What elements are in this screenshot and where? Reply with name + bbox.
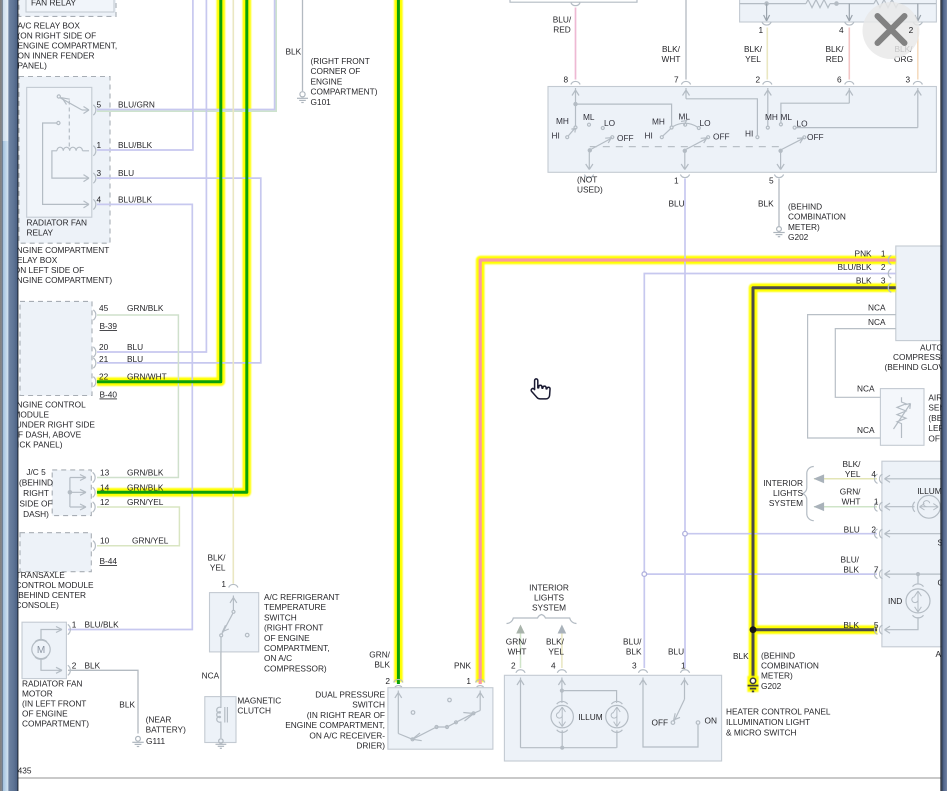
label dual pressure switch location xyxy=(285,690,385,751)
auto compressor pin arcs xyxy=(888,255,891,292)
relay internal contact and coil xyxy=(43,95,89,204)
svg-text:COMPRESSO: COMPRESSO xyxy=(893,352,947,362)
label BLU/RED xyxy=(553,15,572,35)
core BLK highlighted xyxy=(753,288,896,677)
svg-text:(BEHIND: (BEHIND xyxy=(788,202,822,212)
svg-text:& MICRO SWITCH: & MICRO SWITCH xyxy=(726,727,797,737)
svg-text:IND: IND xyxy=(888,596,902,606)
svg-text:20: 20 xyxy=(99,342,109,352)
svg-text:LIGHTS: LIGHTS xyxy=(773,488,803,498)
illumination box pin arcs xyxy=(874,474,882,634)
svg-text:4: 4 xyxy=(871,469,876,479)
fan relay dashed box (top, cut off) xyxy=(19,0,116,16)
svg-text:ILLUM: ILLUM xyxy=(917,486,942,496)
svg-text:GRN/WHT: GRN/WHT xyxy=(127,372,167,382)
svg-text:BLU/BLK: BLU/BLK xyxy=(837,262,872,272)
svg-text:22: 22 xyxy=(99,372,109,382)
svg-text:COMPARTMENT): COMPARTMENT) xyxy=(22,719,89,729)
svg-text:BLU: BLU xyxy=(668,647,684,657)
svg-text:G202: G202 xyxy=(788,232,809,242)
svg-text:RED: RED xyxy=(826,54,844,64)
svg-text:1: 1 xyxy=(681,661,686,671)
svg-text:45: 45 xyxy=(99,303,109,313)
close button X xyxy=(863,2,920,59)
svg-text:DUAL PRESSURE: DUAL PRESSURE xyxy=(315,690,385,700)
svg-text:3: 3 xyxy=(881,276,886,286)
svg-text:1: 1 xyxy=(72,620,77,630)
wire BLK radiator fan motor pin 2 to G111 xyxy=(68,670,138,733)
label BLK/YEL heater pin 4 xyxy=(546,637,565,657)
svg-text:4: 4 xyxy=(551,661,556,671)
svg-text:COMPARTMENT): COMPARTMENT) xyxy=(311,87,378,97)
svg-text:METER): METER) xyxy=(788,222,820,232)
dual pressure switch internals xyxy=(395,686,484,741)
svg-text:CORNER OF: CORNER OF xyxy=(311,66,361,76)
wire BLK/RED resistor pin 4 to blower pin 6 xyxy=(848,28,850,80)
svg-text:ON: ON xyxy=(705,716,717,726)
svg-text:J/C 5: J/C 5 xyxy=(26,467,46,477)
svg-text:BLU/: BLU/ xyxy=(841,555,860,565)
svg-text:HI: HI xyxy=(645,131,653,141)
a/c refrigerant temperature switch box xyxy=(210,593,259,652)
svg-text:(BEHIND: (BEHIND xyxy=(761,651,795,661)
svg-text:NCA: NCA xyxy=(202,671,220,681)
junction dot BLU wire xyxy=(683,531,688,536)
svg-text:1: 1 xyxy=(466,676,471,686)
svg-text:M: M xyxy=(37,645,45,656)
svg-text:OF DASH, ABOVE: OF DASH, ABOVE xyxy=(12,430,82,440)
svg-text:1: 1 xyxy=(874,497,879,507)
wire GRN/WHT heater pin 2 stub xyxy=(520,632,522,668)
svg-text:LO: LO xyxy=(700,118,712,128)
hand cursor xyxy=(531,379,550,399)
svg-text:OFF: OFF xyxy=(617,133,634,143)
svg-text:GRN/BLK: GRN/BLK xyxy=(127,482,164,492)
heater control panel box xyxy=(504,675,721,761)
core GRN/WHT wire 22 xyxy=(97,0,221,382)
wire BLU/BLK 7 to illumination box xyxy=(646,573,877,575)
svg-text:GRN/BLK: GRN/BLK xyxy=(127,468,164,478)
wire BLK to ground G101 xyxy=(302,0,304,91)
svg-text:PNK: PNK xyxy=(454,661,472,671)
label BLK 5 illumination xyxy=(843,620,879,630)
svg-text:3: 3 xyxy=(906,75,911,85)
svg-text:2: 2 xyxy=(511,661,516,671)
illumination box internals xyxy=(885,475,942,633)
svg-text:OFF: OFF xyxy=(713,132,730,142)
svg-text:BLK/: BLK/ xyxy=(744,44,763,54)
svg-text:RADIATOR FAN: RADIATOR FAN xyxy=(27,218,88,228)
label BLK/ORG xyxy=(894,44,913,64)
svg-text:LO: LO xyxy=(604,118,616,128)
svg-text:GRN/YEL: GRN/YEL xyxy=(132,536,169,546)
svg-text:A/C RELAY BOX: A/C RELAY BOX xyxy=(18,21,81,31)
svg-text:4: 4 xyxy=(839,25,844,35)
svg-text:OF: OF xyxy=(928,433,940,443)
svg-text:2: 2 xyxy=(871,525,876,535)
svg-text:COMBINATION: COMBINATION xyxy=(788,212,846,222)
svg-text:NCA: NCA xyxy=(868,303,886,313)
svg-text:12: 12 xyxy=(100,497,110,507)
radiator fan motor symbol xyxy=(32,624,71,675)
svg-text:BLU/BLK: BLU/BLK xyxy=(118,140,153,150)
label BLK/RED xyxy=(826,44,845,64)
magnetic clutch box xyxy=(205,697,236,743)
highlight trace GRN/WHT wire 22 xyxy=(97,0,221,382)
svg-text:LO: LO xyxy=(797,119,809,129)
label GRN/WHT heater pin 2 xyxy=(506,637,527,657)
svg-text:WHT: WHT xyxy=(662,54,681,64)
svg-text:4: 4 xyxy=(97,194,102,204)
svg-text:(NOT: (NOT xyxy=(577,175,597,185)
svg-text:SWITCH: SWITCH xyxy=(352,700,385,710)
svg-text:1: 1 xyxy=(221,579,226,589)
heater panel internals xyxy=(517,678,700,750)
svg-text:NCA: NCA xyxy=(857,425,875,435)
svg-text:7: 7 xyxy=(674,75,679,85)
svg-text:2: 2 xyxy=(756,75,761,85)
wire BLU/GRN relay pin 5 xyxy=(97,0,276,111)
bottom separator line xyxy=(18,777,941,779)
svg-text:ENGINE: ENGINE xyxy=(311,76,343,86)
junction dot BLK wire at pin 5 branch xyxy=(750,626,757,633)
wire NCA temp switch to magnetic clutch xyxy=(220,653,222,697)
svg-text:(NEAR: (NEAR xyxy=(146,715,172,725)
svg-text:HEATER CONTROL PANEL: HEATER CONTROL PANEL xyxy=(726,707,831,717)
label PNK pin 1 auto compressor xyxy=(855,249,886,259)
engine control module dashed box B-39/B-40 xyxy=(20,301,92,395)
svg-text:3: 3 xyxy=(97,168,102,178)
svg-text:TEMPERATURE: TEMPERATURE xyxy=(264,602,327,612)
wire BLU blower pin 1 to heater panel pin 1 xyxy=(684,179,686,669)
label BLU/BLK 7 illumination xyxy=(841,555,879,575)
core GRN/BLK dual pressure xyxy=(397,0,400,684)
svg-text:1: 1 xyxy=(97,140,102,150)
svg-text:BLU: BLU xyxy=(127,342,143,352)
svg-text:RELAY: RELAY xyxy=(27,228,54,238)
svg-text:FAN RELAY: FAN RELAY xyxy=(31,0,76,8)
label GRN/BLK dual pressure pin 2 xyxy=(369,650,390,687)
svg-text:BLU: BLU xyxy=(669,199,685,209)
labels blower switch section 3 positions xyxy=(745,112,824,142)
svg-text:GRN/BLK: GRN/BLK xyxy=(127,303,164,313)
svg-text:G111: G111 xyxy=(146,736,165,746)
blower switch box xyxy=(548,87,936,173)
svg-text:ENGINE COMPARTMENT,: ENGINE COMPARTMENT, xyxy=(285,720,385,730)
core PNK xyxy=(480,260,896,684)
svg-text:BLK: BLK xyxy=(374,660,390,670)
svg-text:SYSTEM: SYSTEM xyxy=(769,498,803,508)
svg-text:BLK/: BLK/ xyxy=(662,44,681,54)
svg-text:YEL: YEL xyxy=(845,469,861,479)
wire BLU/BLK relay pin 4 to radiator fan motor xyxy=(68,204,192,629)
svg-text:(BEHIND: (BEHIND xyxy=(19,478,53,488)
svg-text:BLU/: BLU/ xyxy=(553,15,572,25)
wire BLK/ORG resistor pin 2 to blower pin 3 xyxy=(917,28,919,80)
svg-text:BLK/: BLK/ xyxy=(843,459,862,469)
junction connector J/C 5 dashed box xyxy=(52,470,91,516)
svg-text:MH: MH xyxy=(765,112,778,122)
labels blower switch section 1 positions xyxy=(552,112,634,143)
core BLK 5 highlighted xyxy=(753,628,877,631)
highlight trace GRN/BLK wire 14 xyxy=(97,0,247,492)
svg-text:G202: G202 xyxy=(761,681,782,691)
blower switch section 3 internals xyxy=(756,88,921,170)
interior lights arrows left xyxy=(516,625,566,634)
svg-text:1: 1 xyxy=(674,176,679,186)
label BLU 2 illumination xyxy=(844,525,877,535)
svg-text:13: 13 xyxy=(100,468,110,478)
svg-text:HI: HI xyxy=(745,129,753,139)
svg-text:BLK: BLK xyxy=(758,199,774,209)
svg-text:COMBINATION: COMBINATION xyxy=(761,661,819,671)
svg-text:MH: MH xyxy=(652,117,665,127)
svg-text:MODULE: MODULE xyxy=(14,410,50,420)
svg-text:CLUTCH: CLUTCH xyxy=(237,706,271,716)
svg-text:PNK: PNK xyxy=(855,249,873,259)
wire GRN/WHT 1 from interior lights arrow xyxy=(814,506,877,508)
label BLK/WHT xyxy=(662,44,681,64)
radiator fan motor box xyxy=(22,622,66,678)
svg-text:NCA: NCA xyxy=(868,317,886,327)
svg-text:3: 3 xyxy=(632,661,637,671)
highlight trace BLK wire 5 to illumination box xyxy=(753,625,877,634)
svg-text:ENGINE COMPARTMENT,: ENGINE COMPARTMENT, xyxy=(18,41,118,51)
svg-text:MOTOR: MOTOR xyxy=(22,689,53,699)
interior lights brace right xyxy=(802,466,814,520)
wire NCA inner loop auto compressor to air temp sensor xyxy=(835,329,896,398)
svg-text:AUTO: AUTO xyxy=(920,343,943,353)
label GRN/WHT 1 illumination xyxy=(840,487,879,507)
svg-text:GRN/: GRN/ xyxy=(840,487,861,497)
svg-text:OF ENGINE: OF ENGINE xyxy=(22,709,68,719)
wire BLK blower pin 5 to G202 xyxy=(778,179,780,227)
svg-text:G101: G101 xyxy=(311,97,332,107)
svg-text:SWITCH: SWITCH xyxy=(264,612,297,622)
air temp sensor box xyxy=(880,389,924,446)
svg-text:INTERIOR: INTERIOR xyxy=(763,478,803,488)
wire BLK/WHT to blower switch pin 7 xyxy=(685,0,687,80)
svg-text:GRN/: GRN/ xyxy=(369,650,390,660)
svg-text:DASH): DASH) xyxy=(23,509,49,519)
right scrollbar xyxy=(940,0,947,791)
illumination / indicator light box xyxy=(882,461,944,647)
svg-text:A/C REFRIGERANT: A/C REFRIGERANT xyxy=(264,592,340,602)
highlight trace GRN/BLK wire to dual pressure switch xyxy=(394,0,403,682)
svg-text:ILLUMINATION LIGHT: ILLUMINATION LIGHT xyxy=(726,717,810,727)
svg-text:5: 5 xyxy=(97,100,102,110)
blower resistor internals xyxy=(740,0,936,25)
svg-text:BLU/: BLU/ xyxy=(623,637,642,647)
svg-text:2: 2 xyxy=(72,660,77,670)
svg-text:(IN LEFT FRONT: (IN LEFT FRONT xyxy=(22,699,86,709)
highlight trace BLK wire to G202 xyxy=(753,288,896,688)
svg-text:7: 7 xyxy=(874,565,879,575)
svg-text:BLU: BLU xyxy=(127,354,143,364)
wire NCA outer loop auto compressor to air temp sensor xyxy=(808,315,896,438)
svg-text:YEL: YEL xyxy=(548,647,564,657)
svg-text:AIR: AIR xyxy=(928,393,942,403)
label BLK/YEL temp switch xyxy=(208,553,227,590)
svg-text:2: 2 xyxy=(909,25,914,35)
svg-text:KICK PANEL): KICK PANEL) xyxy=(12,440,63,450)
svg-text:BLK/: BLK/ xyxy=(826,44,845,54)
wire BLK/YEL resistor pin 1 to blower pin 2 xyxy=(766,28,768,80)
magnetic clutch coil xyxy=(217,697,228,738)
svg-text:USED): USED) xyxy=(577,185,603,195)
heater panel pin arcs xyxy=(516,670,690,673)
radiator fan relay dashed box xyxy=(19,77,110,244)
svg-text:SYSTEM: SYSTEM xyxy=(532,603,566,613)
svg-text:(BEHIND GLOV: (BEHIND GLOV xyxy=(885,362,945,372)
air temp sensor thermistor xyxy=(894,397,911,438)
svg-text:BLK: BLK xyxy=(843,565,859,575)
svg-text:YEL: YEL xyxy=(210,563,226,573)
label BLU/BLK pin 2 auto compressor xyxy=(837,262,885,272)
svg-text:B-44: B-44 xyxy=(100,556,118,566)
label BLU/BLK heater pin 3 xyxy=(623,637,642,657)
junction dot BLU/BLK wire xyxy=(642,572,647,577)
svg-text:BATTERY): BATTERY) xyxy=(146,725,186,735)
ground G101 xyxy=(297,92,308,103)
wire BLU/RED to blower switch pin 8 xyxy=(575,8,577,80)
svg-text:ILLUM: ILLUM xyxy=(578,712,603,722)
svg-text:COMPRESSOR): COMPRESSOR) xyxy=(264,663,327,673)
svg-text:OFF: OFF xyxy=(807,132,824,142)
wire GRN/BLK pin 45 to J/C5 pin 13 xyxy=(97,315,178,478)
interior lights brace left xyxy=(507,615,577,624)
svg-text:2: 2 xyxy=(881,262,886,272)
blower switch mechanical link dashed xyxy=(590,146,781,148)
svg-text:5: 5 xyxy=(874,620,879,630)
ground G111 xyxy=(132,736,143,746)
svg-text:2: 2 xyxy=(385,676,390,686)
svg-text:B-39: B-39 xyxy=(100,321,118,331)
svg-text:BLK: BLK xyxy=(626,647,642,657)
svg-text:1: 1 xyxy=(759,25,764,35)
svg-text:NCA: NCA xyxy=(857,384,875,394)
svg-text:ML: ML xyxy=(781,112,793,122)
svg-text:BLU/BLK: BLU/BLK xyxy=(118,194,153,204)
ground magnetic clutch xyxy=(216,739,227,749)
svg-text:6: 6 xyxy=(837,75,842,85)
svg-text:B-40: B-40 xyxy=(100,390,118,400)
dual pressure switch box xyxy=(388,688,493,750)
dual pressure pin arcs top xyxy=(394,679,485,682)
svg-text:ENGINE CONTROL: ENGINE CONTROL xyxy=(11,400,86,410)
core GRN/BLK wire 14 xyxy=(97,0,247,492)
svg-text:ON A/C: ON A/C xyxy=(264,653,292,663)
blower switch section 1 internals xyxy=(566,88,672,170)
svg-text:5: 5 xyxy=(769,176,774,186)
blower switch bottom pin arcs xyxy=(584,175,783,178)
transaxle control module dashed box B-44 xyxy=(20,533,91,572)
svg-text:METER): METER) xyxy=(761,671,793,681)
svg-text:ON INNER FENDER: ON INNER FENDER xyxy=(18,51,95,61)
svg-text:ML: ML xyxy=(583,112,595,122)
left scrollbar xyxy=(0,0,18,791)
J/C5 internal junction with arrows xyxy=(68,472,95,512)
ground G202 heater illumination (highlighted) xyxy=(747,676,758,692)
wire BLU/BLK auto compressor pin 2 to heater panel pin 3 xyxy=(644,274,896,669)
temp switch internals xyxy=(220,596,249,653)
label J/C 5 location xyxy=(19,467,53,519)
svg-text:GRN/: GRN/ xyxy=(506,637,527,647)
svg-text:GRN/YEL: GRN/YEL xyxy=(127,497,164,507)
svg-text:(BEHIND CENTER: (BEHIND CENTER xyxy=(16,590,87,600)
svg-text:RADIATOR FAN: RADIATOR FAN xyxy=(22,679,83,689)
wire BLK/YEL heater pin 4 stub xyxy=(561,632,563,668)
svg-text:1: 1 xyxy=(881,249,886,259)
svg-text:(ON RIGHT SIDE OF: (ON RIGHT SIDE OF xyxy=(18,31,97,41)
svg-text:MH: MH xyxy=(556,116,569,126)
svg-text:ENGINE COMPARTMENT: ENGINE COMPARTMENT xyxy=(11,245,109,255)
label BLK pin 3 auto compressor xyxy=(856,276,886,286)
ECM B-39/B-40 pin arcs xyxy=(93,310,96,387)
svg-text:(ON LEFT SIDE OF: (ON LEFT SIDE OF xyxy=(11,265,84,275)
svg-text:CONTROL MODULE: CONTROL MODULE xyxy=(16,580,95,590)
temp switch pin arc xyxy=(229,584,238,587)
svg-text:21: 21 xyxy=(99,354,109,364)
svg-text:BLK: BLK xyxy=(733,651,749,661)
svg-text:BLU: BLU xyxy=(844,525,860,535)
svg-text:BLU: BLU xyxy=(118,168,134,178)
transaxle pin 10 arc xyxy=(93,541,96,551)
wire BLU pin 20 xyxy=(97,0,206,352)
svg-text:SIDE OF: SIDE OF xyxy=(19,499,52,509)
svg-text:HI: HI xyxy=(552,131,560,141)
wire BLK/YEL 4 from interior lights arrow xyxy=(814,478,877,480)
svg-text:BLK: BLK xyxy=(843,620,859,630)
interior lights arrows right xyxy=(814,474,825,511)
svg-text:OF ENGINE: OF ENGINE xyxy=(264,633,310,643)
svg-text:BLK: BLK xyxy=(119,700,135,710)
wire BLU relay pin 3 to pin 21 xyxy=(97,178,261,363)
blower switch top pin arcs xyxy=(571,81,923,84)
svg-text:ML: ML xyxy=(679,112,691,122)
label interior lights system right xyxy=(763,478,803,508)
highlight trace PNK wire xyxy=(480,260,896,682)
wire BLU 2 to illumination box xyxy=(687,533,878,535)
svg-text:ON A/C RECEIVER-: ON A/C RECEIVER- xyxy=(309,730,385,740)
svg-text:BLK: BLK xyxy=(856,276,872,286)
svg-text:DRIER): DRIER) xyxy=(356,741,385,751)
wire GRN/YEL pin 12 to pin 10 xyxy=(97,507,179,546)
svg-text:ENGINE COMPARTMENT): ENGINE COMPARTMENT) xyxy=(11,275,112,285)
svg-text:MAGNETIC: MAGNETIC xyxy=(237,696,281,706)
svg-text:10: 10 xyxy=(100,536,110,546)
svg-text:RED: RED xyxy=(553,25,571,35)
ground G202 blower switch xyxy=(773,227,784,237)
svg-text:TRANSAXLE: TRANSAXLE xyxy=(16,570,66,580)
svg-text:RIGHT: RIGHT xyxy=(23,488,49,498)
labels blower switch section 2 positions xyxy=(645,112,730,142)
svg-text:YEL: YEL xyxy=(745,54,761,64)
label PNK dual pressure pin 1 xyxy=(454,661,472,687)
svg-text:(IN RIGHT REAR OF: (IN RIGHT REAR OF xyxy=(307,710,385,720)
svg-text:BLK/: BLK/ xyxy=(208,553,227,563)
svg-text:OFF: OFF xyxy=(652,718,669,728)
label BLK/YEL blower xyxy=(744,44,763,64)
svg-text:INTERIOR: INTERIOR xyxy=(529,583,569,593)
top middle box bottom edge and pin xyxy=(510,0,637,6)
label interior lights system left xyxy=(529,583,569,613)
svg-text:14: 14 xyxy=(100,482,110,492)
svg-text:8: 8 xyxy=(564,75,569,85)
svg-text:BLU/BLK: BLU/BLK xyxy=(85,620,120,630)
svg-text:(RIGHT FRONT: (RIGHT FRONT xyxy=(311,56,370,66)
svg-text:BLK/: BLK/ xyxy=(546,637,565,647)
